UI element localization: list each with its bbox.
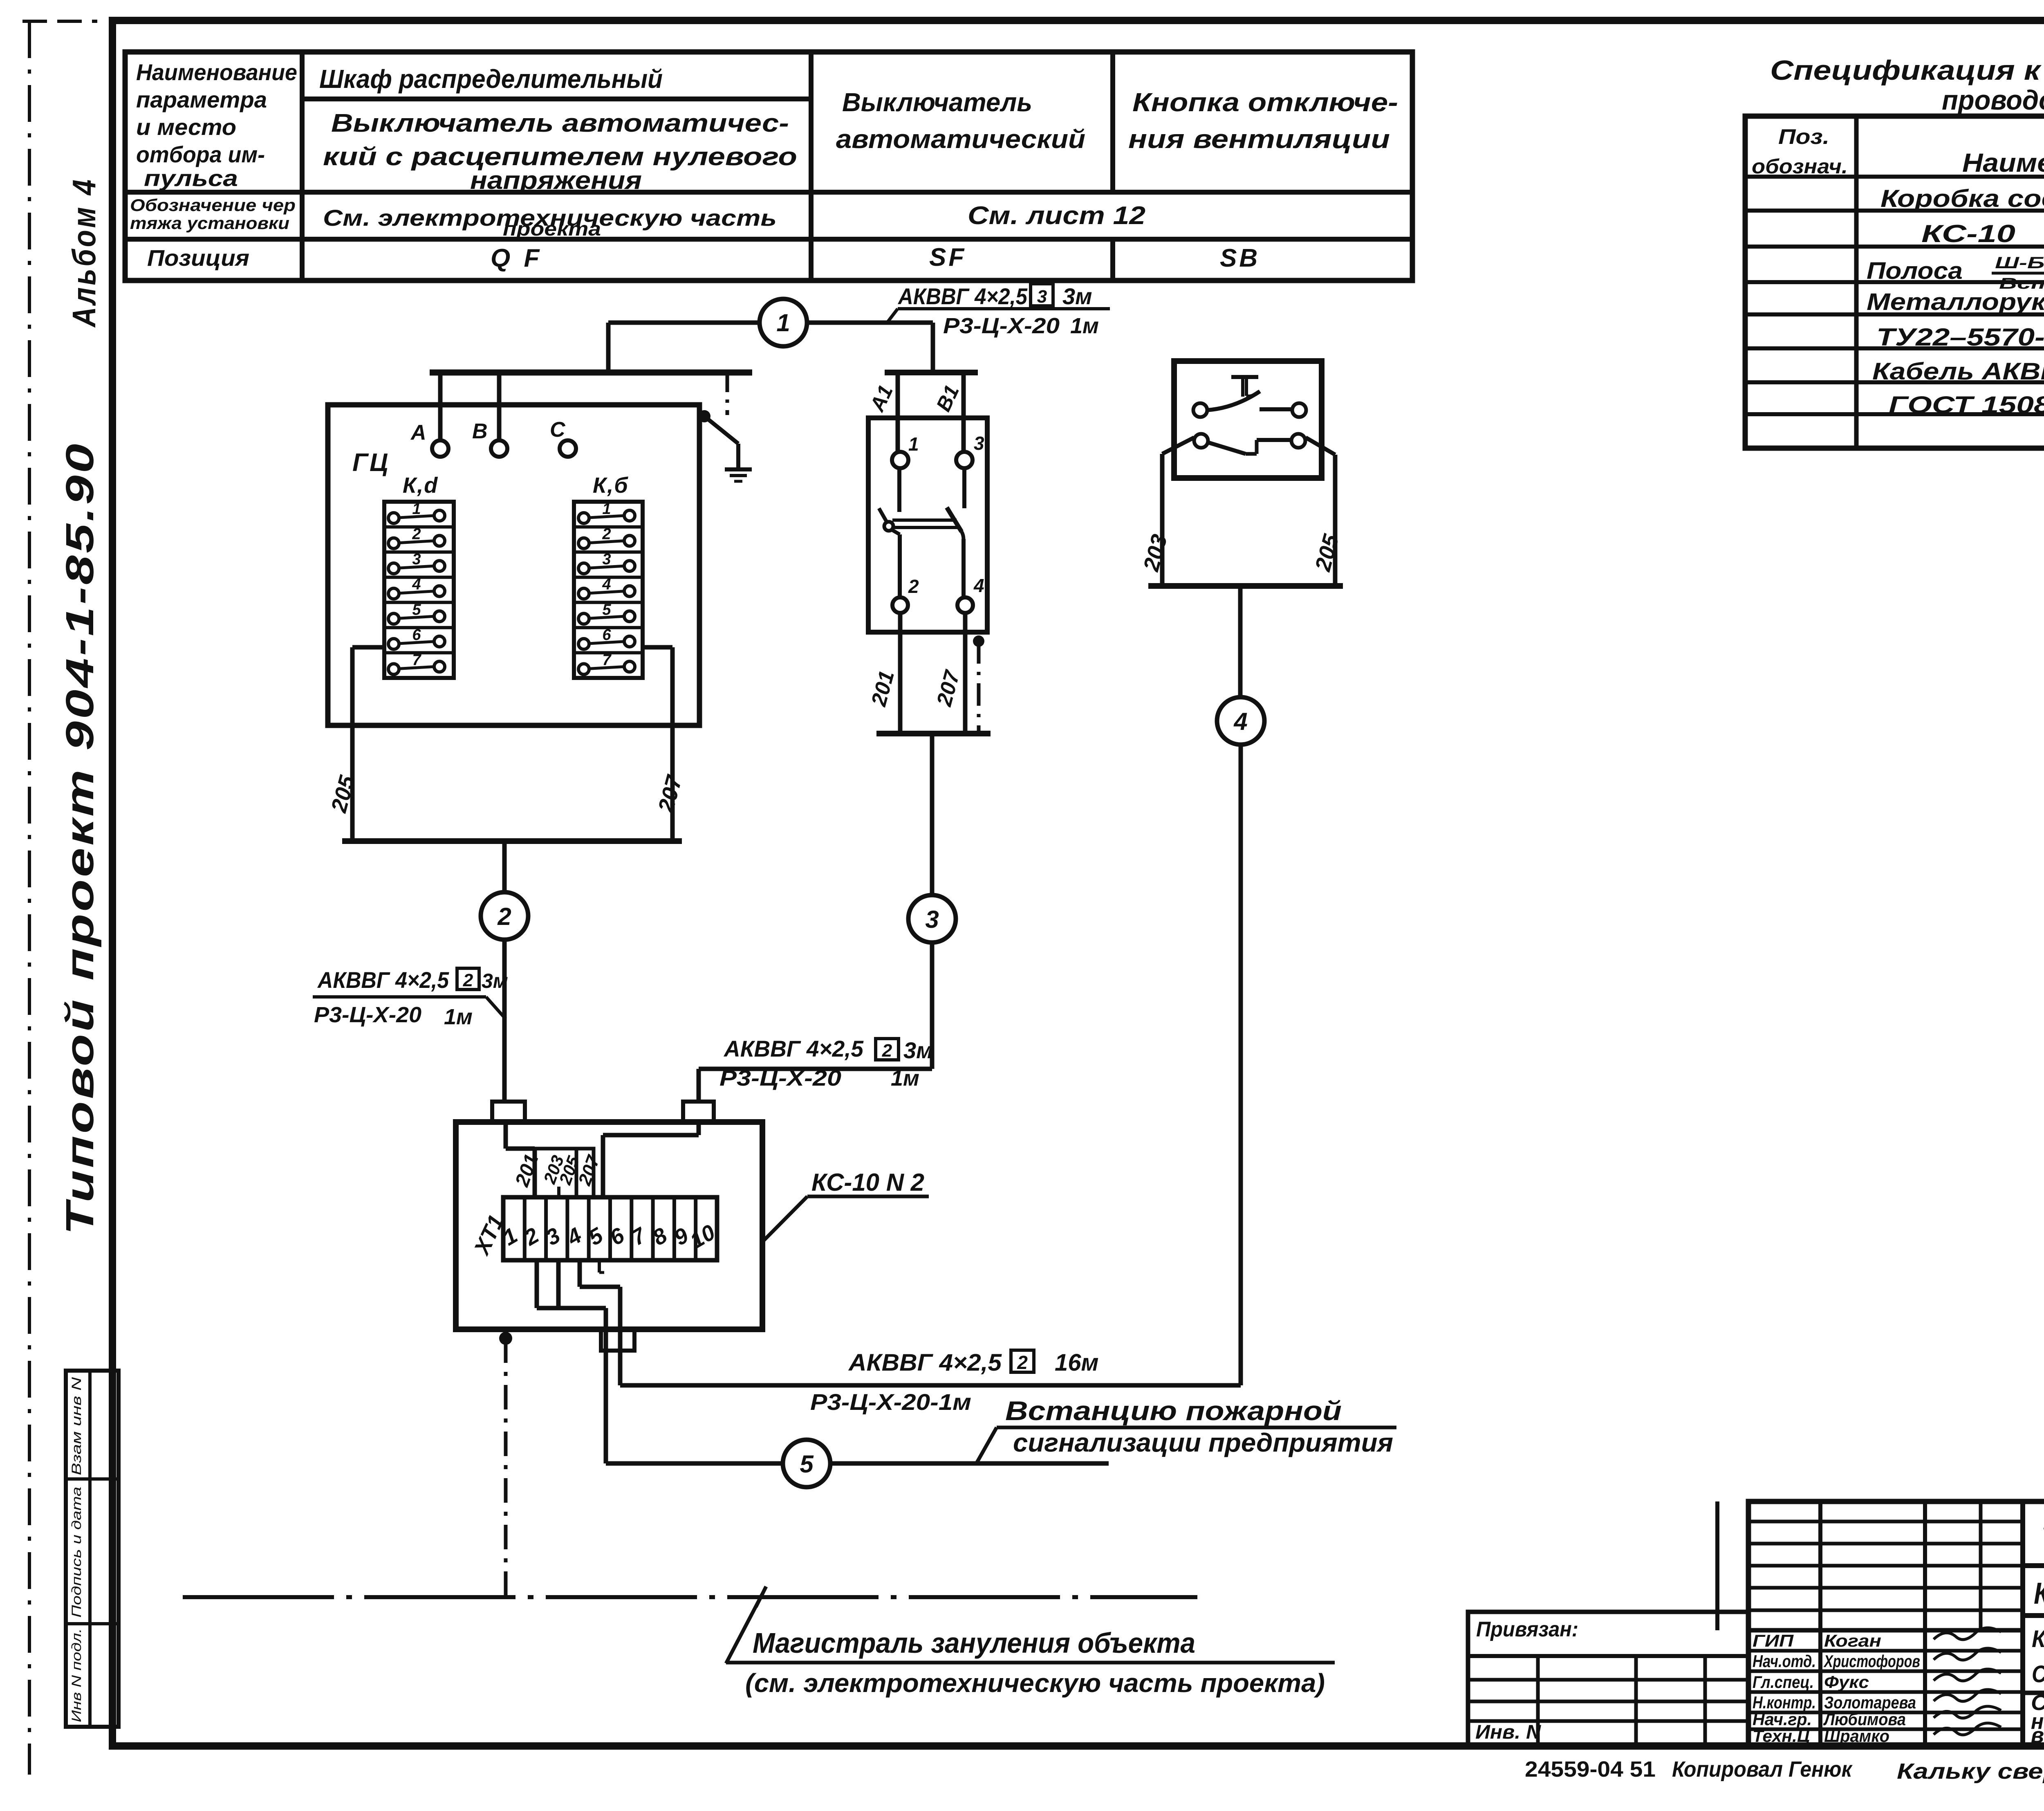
- svg-text:Сантехнические установк.: Сантехнические установк.: [2032, 1661, 2044, 1688]
- svg-text:Гл.спец.: Гл.спец.: [1753, 1672, 1814, 1692]
- svg-text:Нач.гр.: Нач.гр.: [1753, 1710, 1812, 1729]
- svg-text:пульса: пульса: [144, 165, 238, 191]
- svg-text:3м: 3м: [1062, 283, 1092, 309]
- svg-text:параметра: параметра: [136, 87, 267, 112]
- svg-text:207: 207: [932, 667, 964, 709]
- svg-text:207: 207: [574, 1152, 604, 1188]
- svg-text:отбора им-: отбора им-: [136, 141, 265, 167]
- svg-text:1: 1: [602, 500, 611, 518]
- svg-text:КС-10 N 2: КС-10 N 2: [811, 1169, 924, 1196]
- svg-text:4: 4: [602, 576, 611, 593]
- svg-text:В: В: [472, 420, 488, 443]
- svg-text:КС-10: КС-10: [1921, 220, 2015, 247]
- svg-text:Типовой проект 904-1-85.90: Типовой проект 904-1-85.90: [58, 442, 102, 1235]
- svg-text:SF: SF: [929, 243, 966, 272]
- svg-text:Коган: Коган: [1824, 1631, 1881, 1650]
- svg-text:ния вентиляции: ния вентиляции: [1128, 124, 1390, 154]
- svg-text:2: 2: [497, 903, 511, 930]
- svg-text:К,d: К,d: [403, 473, 438, 498]
- svg-text:Спецификация к схеме соед: Спецификация к схеме соединений внешних: [1770, 55, 2044, 86]
- svg-text:3: 3: [602, 551, 611, 568]
- svg-text:Выключатель: Выключатель: [842, 88, 1032, 117]
- svg-text:Шрамко: Шрамко: [1824, 1726, 1889, 1746]
- svg-text:207: 207: [653, 772, 687, 815]
- svg-text:проводок: проводок: [1942, 85, 2044, 116]
- svg-text:напряжения: напряжения: [470, 166, 642, 195]
- svg-text:Инв. N: Инв. N: [1475, 1721, 1541, 1743]
- svg-text:А: А: [410, 421, 426, 444]
- svg-text:3: 3: [974, 433, 984, 454]
- svg-text:Привязан:: Привязан:: [1476, 1618, 1578, 1641]
- svg-text:автоматический: автоматический: [836, 124, 1085, 154]
- svg-text:2: 2: [463, 970, 473, 990]
- svg-text:С: С: [550, 418, 566, 442]
- svg-text:3м: 3м: [482, 969, 508, 992]
- svg-text:(см. электротехническую часть: (см. электротехническую часть проекта): [745, 1668, 1325, 1698]
- svg-text:АКВВГ 4×2,5: АКВВГ 4×2,5: [848, 1349, 1002, 1376]
- svg-text:Полоса: Полоса: [1867, 258, 1963, 284]
- svg-text:24559-04 51: 24559-04 51: [1525, 1757, 1656, 1782]
- svg-text:201: 201: [867, 668, 899, 709]
- svg-text:1м: 1м: [891, 1066, 919, 1091]
- svg-text:ТП904-1-85.90 АОВ: ТП904-1-85.90 АОВ: [2040, 1515, 2044, 1566]
- svg-text:См. лист 12: См. лист 12: [968, 202, 1145, 230]
- svg-text:АКВВГ 4×2,5: АКВВГ 4×2,5: [723, 1036, 864, 1061]
- svg-text:4: 4: [973, 575, 984, 596]
- svg-text:205: 205: [1310, 532, 1344, 574]
- svg-text:Копировал Генюк: Копировал Генюк: [1672, 1757, 1853, 1782]
- svg-text:2: 2: [412, 526, 421, 543]
- svg-text:Кнопка отключе-: Кнопка отключе-: [1132, 88, 1398, 117]
- svg-text:Альбом 4: Альбом 4: [66, 177, 102, 328]
- svg-text:3: 3: [412, 551, 421, 568]
- svg-text:4: 4: [1233, 708, 1247, 735]
- svg-text:205: 205: [326, 773, 360, 815]
- svg-text:Компрессорная станция 5КЦ-160А: Компрессорная станция 5КЦ-160АО: [2034, 1576, 2044, 1610]
- svg-text:ГОСТ 1508-78Е: ГОСТ 1508-78Е: [1889, 392, 2044, 418]
- svg-text:1: 1: [412, 500, 421, 518]
- svg-text:7: 7: [412, 651, 421, 669]
- svg-text:Р3-Ц-Х-20-1м: Р3-Ц-Х-20-1м: [810, 1389, 971, 1415]
- svg-text:16м: 16м: [1055, 1349, 1098, 1376]
- svg-text:6: 6: [602, 626, 611, 644]
- svg-text:2: 2: [882, 1041, 892, 1061]
- svg-text:Q F: Q F: [491, 244, 542, 272]
- svg-text:Поз.: Поз.: [1778, 125, 1829, 149]
- svg-text:Фукс: Фукс: [1824, 1672, 1869, 1692]
- svg-text:Выключатель автоматичес-: Выключатель автоматичес-: [331, 109, 789, 137]
- svg-text:Обозначение чер: Обозначение чер: [130, 195, 296, 215]
- svg-text:Наименование: Наименование: [136, 59, 297, 85]
- svg-text:ГЦ: ГЦ: [352, 449, 390, 477]
- svg-text:А1: А1: [865, 381, 897, 415]
- svg-text:203: 203: [1139, 532, 1172, 574]
- svg-text:2: 2: [908, 576, 919, 597]
- svg-text:2: 2: [602, 526, 611, 543]
- svg-text:Магистраль зануления объекта: Магистраль зануления объекта: [753, 1627, 1195, 1659]
- svg-text:4: 4: [412, 576, 421, 593]
- svg-text:3: 3: [925, 906, 939, 933]
- svg-text:Наименование: Наименование: [1962, 148, 2044, 177]
- svg-text:201: 201: [511, 1151, 543, 1189]
- svg-text:Золотарева: Золотарева: [1824, 1693, 1916, 1712]
- svg-text:тяжа установки: тяжа установки: [130, 213, 289, 233]
- svg-text:и место: и место: [136, 114, 236, 140]
- svg-text:Инв N подл.: Инв N подл.: [69, 1628, 84, 1722]
- svg-text:7: 7: [602, 651, 612, 669]
- svg-text:Ш-Б2 4×14 ГОСТ103-76: Ш-Б2 4×14 ГОСТ103-76: [1995, 254, 2044, 272]
- svg-text:5: 5: [412, 601, 421, 618]
- svg-text:Позиция: Позиция: [147, 245, 249, 271]
- svg-text:1м: 1м: [1070, 314, 1099, 338]
- svg-text:Встанцию пожарной: Встанцию пожарной: [1005, 1396, 1342, 1426]
- svg-text:3: 3: [1037, 287, 1047, 307]
- svg-text:Р3-Ц-Х-20: Р3-Ц-Х-20: [943, 314, 1060, 338]
- svg-text:1м: 1м: [444, 1005, 473, 1029]
- svg-text:АКВВГ 4×2,5: АКВВГ 4×2,5: [897, 283, 1028, 309]
- svg-text:ТУ22–5570-83: ТУ22–5570-83: [1876, 323, 2044, 351]
- svg-text:Шкаф распределительный: Шкаф распределительный: [319, 64, 663, 94]
- svg-text:Любимова: Любимова: [1823, 1710, 1906, 1729]
- svg-text:Металлорукав Р3-Ц-Х-20: Металлорукав Р3-Ц-Х-20: [1867, 289, 2044, 315]
- svg-text:Подпись и дата: Подпись и дата: [69, 1487, 84, 1618]
- svg-text:ГИП: ГИП: [1753, 1631, 1794, 1650]
- svg-text:Кабель АКВВГ 4×2,5: Кабель АКВВГ 4×2,5: [1872, 358, 2044, 385]
- svg-text:обознач.: обознач.: [1752, 155, 1848, 178]
- svg-text:Взам инв N: Взам инв N: [69, 1377, 84, 1475]
- svg-text:В1: В1: [932, 381, 964, 415]
- svg-text:Р3-Ц-Х-20: Р3-Ц-Х-20: [314, 1003, 421, 1027]
- svg-text:Компрессорная станция: Компрессорная станция: [2032, 1626, 2044, 1652]
- svg-text:проекта: проекта: [503, 218, 601, 240]
- svg-text:АКВВГ 4×2,5: АКВВГ 4×2,5: [317, 967, 449, 993]
- svg-text:2: 2: [1017, 1352, 1028, 1373]
- svg-text:Н.контр.: Н.контр.: [1753, 1693, 1816, 1712]
- svg-text:3м: 3м: [903, 1037, 933, 1063]
- svg-text:вытяжной вентиляции: вытяжной вентиляции: [2031, 1723, 2044, 1748]
- svg-text:1: 1: [776, 309, 790, 337]
- svg-text:10: 10: [686, 1220, 719, 1253]
- svg-text:Р3-Ц-Х-20: Р3-Ц-Х-20: [719, 1066, 841, 1091]
- svg-text:Кальку сверил Шрамко: Кальку сверил Шрамко: [1897, 1759, 2044, 1784]
- svg-text:Нач.отд.: Нач.отд.: [1753, 1652, 1816, 1671]
- svg-text:Христофоров: Христофоров: [1823, 1652, 1920, 1671]
- svg-text:Техн.Ц: Техн.Ц: [1753, 1726, 1810, 1746]
- svg-text:Коробка соединительная: Коробка соединительная: [1880, 185, 2044, 212]
- svg-text:1: 1: [908, 433, 919, 455]
- svg-text:сигнализации предприятия: сигнализации предприятия: [1013, 1428, 1393, 1457]
- svg-text:6: 6: [412, 626, 421, 644]
- svg-text:SB: SB: [1220, 244, 1260, 272]
- svg-text:5: 5: [800, 1450, 814, 1478]
- svg-text:5: 5: [602, 601, 611, 618]
- svg-text:К,б: К,б: [593, 473, 629, 498]
